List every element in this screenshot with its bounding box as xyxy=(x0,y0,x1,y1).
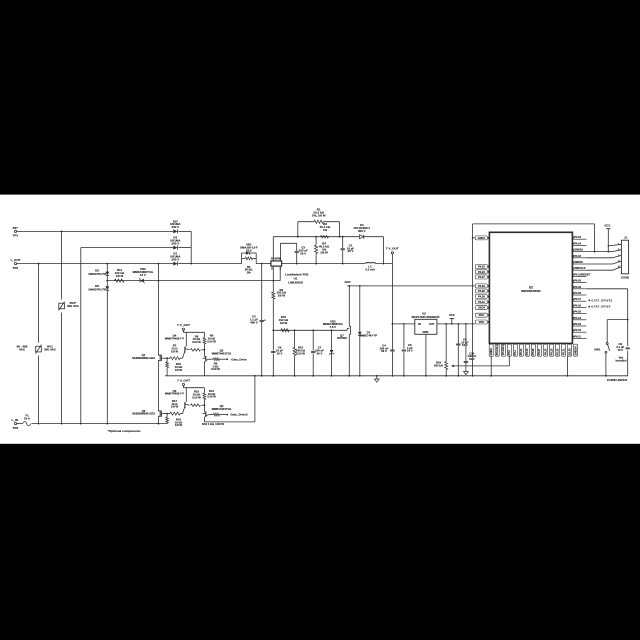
svg-text:600 V: 600 V xyxy=(358,229,366,233)
svg-text:Gate_Drive: Gate_Drive xyxy=(231,357,247,361)
svg-text:MMBT4403-7-F: MMBT4403-7-F xyxy=(165,336,185,340)
svg-text:L_IN: L_IN xyxy=(11,418,18,422)
svg-text:P4.14: P4.14 xyxy=(574,316,581,320)
svg-text:VCC: VCC xyxy=(604,223,610,227)
svg-text:16 V: 16 V xyxy=(407,349,413,353)
svg-text:CON5: CON5 xyxy=(621,276,629,280)
svg-text:1/8 W: 1/8 W xyxy=(116,274,124,278)
svg-text:P5.1: P5.1 xyxy=(514,349,517,355)
svg-text:SIHB30N60E-GE3: SIHB30N60E-GE3 xyxy=(132,356,155,360)
svg-text:1/10 W: 1/10 W xyxy=(207,339,216,343)
svg-text:P4.17: P4.17 xyxy=(574,297,581,301)
svg-text:7 V_OUT: 7 V_OUT xyxy=(177,323,190,327)
svg-text:P4.16: P4.16 xyxy=(574,303,581,307)
svg-text:P5.28: P5.28 xyxy=(532,348,535,355)
svg-text:P4.18: P4.18 xyxy=(574,291,581,295)
svg-text:GATE_DRIVE: GATE_DRIVE xyxy=(591,305,610,309)
svg-text:1/10 W: 1/10 W xyxy=(192,340,201,344)
svg-text:16 V: 16 V xyxy=(469,357,475,361)
svg-text:RF*: RF* xyxy=(13,226,19,230)
svg-text:P4.11/RESET: P4.11/RESET xyxy=(574,272,591,276)
svg-text:450 V: 450 V xyxy=(250,320,258,324)
svg-text:16 V: 16 V xyxy=(277,351,283,355)
svg-text:GND19: GND19 xyxy=(574,248,583,252)
svg-text:U2: U2 xyxy=(529,286,533,290)
svg-text:1/10 W: 1/10 W xyxy=(211,367,220,371)
svg-text:P4.19: P4.19 xyxy=(574,285,581,289)
svg-text:LNK3202D: LNK3202D xyxy=(288,280,304,284)
svg-text:SW1: SW1 xyxy=(594,347,601,351)
svg-text:J1: J1 xyxy=(624,236,628,240)
svg-text:P5.27: P5.27 xyxy=(538,348,541,355)
svg-text:1/8 W: 1/8 W xyxy=(175,368,183,372)
svg-text:2.2 mH: 2.2 mH xyxy=(365,268,374,272)
svg-text:GND1: GND1 xyxy=(478,236,486,240)
svg-text:P4.11: P4.11 xyxy=(574,334,581,338)
svg-text:P4.13: P4.13 xyxy=(574,322,581,326)
svg-text:20 V: 20 V xyxy=(246,248,252,252)
svg-text:1%, 1/8 W: 1%, 1/8 W xyxy=(312,213,326,217)
svg-text:SIHB30N60E-GE3: SIHB30N60E-GE3 xyxy=(132,412,155,416)
svg-text:R18 1 kΩ, 1/10 W: R18 1 kΩ, 1/10 W xyxy=(202,422,224,426)
svg-text:1/10 W: 1/10 W xyxy=(207,395,216,399)
svg-text:VDD: VDD xyxy=(479,320,485,324)
svg-text:SWDIO: SWDIO xyxy=(574,260,583,264)
svg-text:P5.31: P5.31 xyxy=(562,348,565,355)
svg-text:MCP1703T-3002E/CB: MCP1703T-3002E/CB xyxy=(412,315,440,319)
svg-text:P4.24: P4.24 xyxy=(478,270,485,274)
svg-text:1/8 W: 1/8 W xyxy=(171,349,179,353)
svg-text:MMBT4401T1G: MMBT4401T1G xyxy=(212,351,232,355)
svg-text:200 V: 200 V xyxy=(171,225,179,229)
svg-text:10 A: 10 A xyxy=(24,417,30,421)
svg-text:GND2H: GND2H xyxy=(574,346,577,355)
svg-text:50 V: 50 V xyxy=(317,351,323,355)
svg-text:1/10 W: 1/10 W xyxy=(296,351,305,355)
svg-text:OSC4: OSC4 xyxy=(478,306,486,310)
svg-text:TP2: TP2 xyxy=(12,266,18,270)
svg-text:Installed: Installed xyxy=(615,358,626,362)
svg-text:P5.30: P5.30 xyxy=(526,348,529,355)
svg-text:25 V: 25 V xyxy=(348,249,354,253)
svg-text:1N4007PL/TP: 1N4007PL/TP xyxy=(88,287,106,291)
svg-text:P4.23: P4.23 xyxy=(478,264,485,268)
svg-text:P4.15: P4.15 xyxy=(574,310,581,314)
svg-text:GND2: GND2 xyxy=(490,348,493,356)
svg-text:P0.0/J0.1: P0.0/J0.1 xyxy=(502,344,505,355)
svg-text:1/8 W: 1/8 W xyxy=(280,321,288,325)
svg-text:*Optional components: *Optional components xyxy=(108,429,141,433)
svg-text:7 V_OUT: 7 V_OUT xyxy=(386,247,399,251)
svg-text:300 VAC: 300 VAC xyxy=(44,347,57,351)
svg-text:P4.12: P4.12 xyxy=(574,254,581,258)
svg-text:200 V: 200 V xyxy=(171,241,179,245)
svg-text:L_OUT: L_OUT xyxy=(10,258,20,262)
svg-text:MMBT4403-7-F: MMBT4403-7-F xyxy=(165,392,185,396)
svg-text:ES.02: ES.02 xyxy=(568,348,571,355)
svg-text:1/8 W: 1/8 W xyxy=(171,405,179,409)
svg-text:SMBZ-PU-TP: SMBZ-PU-TP xyxy=(360,333,377,337)
svg-text:280 kΩ: 280 kΩ xyxy=(434,363,444,367)
svg-text:OUT: OUT xyxy=(429,322,435,326)
svg-text:P4.31: P4.31 xyxy=(478,300,485,304)
svg-text:P5.26: P5.26 xyxy=(544,348,547,355)
svg-text:MSP430FR2032: MSP430FR2032 xyxy=(521,289,541,293)
svg-text:P5.0/J0.1: P5.0/J0.1 xyxy=(496,344,499,355)
svg-text:16 V: 16 V xyxy=(462,343,468,347)
svg-text:1%: 1% xyxy=(323,228,328,232)
svg-text:1/8 W: 1/8 W xyxy=(278,294,286,298)
svg-text:1/10 W: 1/10 W xyxy=(192,395,201,399)
svg-text:P4.12: P4.12 xyxy=(574,328,581,332)
svg-text:200 V: 200 V xyxy=(171,257,179,261)
svg-text:16 V: 16 V xyxy=(617,348,623,352)
svg-text:MMBT4401T1G: MMBT4401T1G xyxy=(212,407,232,411)
svg-text:P4.27: P4.27 xyxy=(478,275,485,279)
svg-text:P4.28: P4.28 xyxy=(478,284,485,288)
svg-text:P4.20: P4.20 xyxy=(574,279,581,283)
svg-text:1%: 1% xyxy=(247,271,252,275)
svg-text:SWDCLK: SWDCLK xyxy=(574,266,586,270)
svg-text:7.5 V: 7.5 V xyxy=(330,325,337,329)
svg-text:16 V: 16 V xyxy=(381,349,387,353)
svg-text:VAC: VAC xyxy=(19,347,26,351)
svg-text:300 VAC: 300 VAC xyxy=(67,304,80,308)
svg-text:PI-8587-092121: PI-8587-092121 xyxy=(607,378,628,382)
svg-text:1/8 W: 1/8 W xyxy=(175,423,183,427)
svg-text:D: D xyxy=(271,268,273,271)
svg-text:P4.14: P4.14 xyxy=(574,241,581,245)
svg-text:7 V_OUT: 7 V_OUT xyxy=(177,379,190,383)
svg-text:P4.13: P4.13 xyxy=(574,235,581,239)
svg-text:RCC: RCC xyxy=(479,313,485,317)
svg-text:25 V: 25 V xyxy=(300,251,306,255)
svg-text:IN: IN xyxy=(418,322,421,326)
svg-text:2N7002: 2N7002 xyxy=(337,336,347,340)
svg-text:TP3: TP3 xyxy=(12,426,18,430)
svg-text:GATE_DRIVE2: GATE_DRIVE2 xyxy=(591,298,612,302)
svg-text:Gate_Drive2: Gate_Drive2 xyxy=(230,413,248,417)
svg-text:P4.29: P4.29 xyxy=(478,289,485,293)
svg-text:P4.30: P4.30 xyxy=(478,294,485,298)
svg-text:VCC: VCC xyxy=(449,313,455,317)
svg-text:P5.25: P5.25 xyxy=(550,348,553,355)
svg-text:P5.24: P5.24 xyxy=(520,348,523,355)
svg-text:TP1: TP1 xyxy=(12,234,18,238)
svg-text:P5.0: P5.0 xyxy=(508,349,511,355)
svg-text:P5.30: P5.30 xyxy=(556,348,559,355)
svg-text:ZCD: ZCD xyxy=(344,280,351,284)
svg-text:13 V: 13 V xyxy=(140,273,146,277)
svg-text:1/8 W: 1/8 W xyxy=(320,250,328,254)
svg-text:1N4007PL/TP: 1N4007PL/TP xyxy=(88,272,106,276)
svg-text:GND: GND xyxy=(422,330,428,334)
